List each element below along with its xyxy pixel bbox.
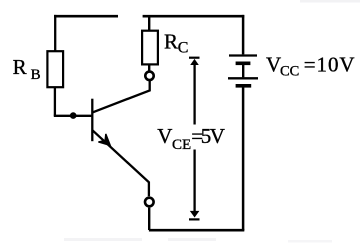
svg-text:B: B [31,67,41,83]
VCE measurement arrow bottom head [190,211,200,218]
svg-text:R: R [164,30,178,54]
wire bottom horizontal [149,229,244,232]
wire below RB [54,87,56,116]
label VCE value (white backing) [155,125,227,150]
transistor Q1 emitter lead [93,130,149,196]
svg-text:V: V [157,124,172,148]
node collector terminal (open circle) [145,72,153,80]
faint cropped text remnant bottom [64,238,142,241]
wire base horizontal [54,115,92,117]
battery VCC long plate 2 [228,77,258,79]
battery VCC long plate 1 [229,54,257,56]
transistor Q1 collector lead [93,81,150,113]
svg-text:V: V [210,124,225,148]
transistor Q1 emitter arrowhead [98,134,110,146]
VCE measurement arrow shaft [193,62,195,211]
resistor RB [47,51,63,87]
wire top-left horizontal segment [54,15,118,18]
wire stub RC to collector terminal [148,64,150,70]
battery VCC short plate 1 [236,61,251,65]
wire right vertical top (to battery) [242,15,245,55]
wire left vertical (top corner to RB) [54,15,56,52]
wire right vertical bottom (battery to bottom wire) [242,88,245,231]
battery VCC inter-cell connector wire [242,65,244,78]
VCE measurement arrow bottom bar [189,218,200,220]
transistor Q1 base bar [91,99,93,142]
wire stub below emitter terminal [148,208,150,230]
svg-text:C: C [178,39,189,56]
VCE measurement arrow top head [190,59,199,65]
node emitter terminal (open circle) [145,198,154,207]
svg-text:CE: CE [172,137,191,153]
resistor RC [142,31,158,65]
wire stub above RC [148,16,150,31]
svg-text:V: V [266,52,281,76]
svg-text:R: R [13,55,27,79]
node junction dot on base wire [70,112,77,119]
VCE measurement arrow top bar [189,57,200,59]
svg-text:CC: CC [280,64,299,80]
battery VCC short plate 2 [236,84,252,88]
svg-text:=10V: =10V [304,52,356,76]
faint cropped text remnant top right [300,0,360,3]
wire top-right horizontal segment [143,15,245,18]
